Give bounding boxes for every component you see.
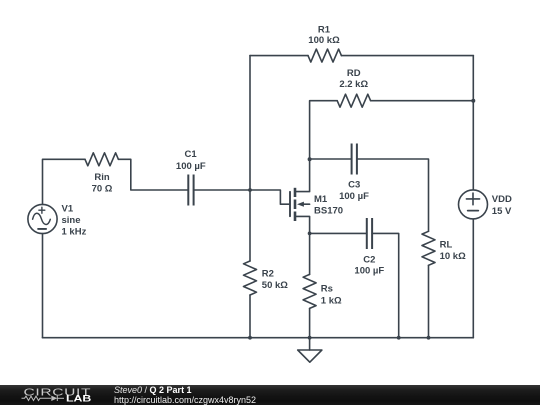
wire C1 to gate node bbox=[194, 189, 250, 191]
svg-text:100 µF: 100 µF bbox=[176, 161, 206, 172]
svg-text:R2: R2 bbox=[262, 269, 274, 280]
node R2 bottom bbox=[248, 336, 252, 340]
wire V1 top to Rin bbox=[43, 159, 86, 204]
resistor Rs bbox=[303, 274, 316, 308]
svg-text:100 µF: 100 µF bbox=[354, 266, 384, 277]
svg-text:LAB: LAB bbox=[66, 394, 91, 404]
label RD bbox=[339, 68, 368, 90]
wire RL bottom bbox=[428, 265, 430, 337]
svg-text:sine: sine bbox=[62, 215, 81, 226]
node gate junction bbox=[248, 188, 252, 192]
wire C2 left bbox=[310, 232, 367, 234]
wire R2 bottom bbox=[249, 295, 251, 338]
svg-text:70 Ω: 70 Ω bbox=[92, 183, 113, 194]
label VDD bbox=[492, 194, 512, 217]
wire RD left bbox=[310, 101, 338, 159]
left column wire R1-R2 bbox=[249, 56, 251, 261]
svg-text:Rs: Rs bbox=[321, 283, 333, 294]
svg-text:50 kΩ: 50 kΩ bbox=[262, 280, 288, 291]
label Rs bbox=[321, 283, 342, 306]
svg-text:C1: C1 bbox=[185, 149, 198, 160]
footer text bbox=[114, 385, 256, 405]
wire RD right bbox=[371, 100, 474, 102]
label RL bbox=[440, 240, 466, 262]
resistor RD bbox=[337, 94, 370, 107]
svg-text:VDD: VDD bbox=[492, 194, 512, 205]
svg-text:C3: C3 bbox=[348, 180, 360, 191]
CircuitLab logo bbox=[0, 385, 110, 405]
wire VDD branch bbox=[472, 56, 474, 190]
svg-text:1 kHz: 1 kHz bbox=[62, 227, 87, 238]
node Rs bottom bbox=[308, 336, 312, 340]
wire Rin to C1 bbox=[118, 159, 188, 190]
label C2 bbox=[354, 254, 384, 276]
wire bottom rail bbox=[43, 337, 474, 339]
node source junction bbox=[308, 232, 312, 236]
svg-text:100 kΩ: 100 kΩ bbox=[308, 35, 340, 46]
svg-text:M1: M1 bbox=[314, 194, 328, 205]
svg-text:15 V: 15 V bbox=[492, 206, 512, 217]
capacitor C1 bbox=[188, 175, 193, 206]
svg-text:100 µF: 100 µF bbox=[339, 191, 369, 202]
svg-text:RD: RD bbox=[347, 68, 361, 79]
svg-text:Rin: Rin bbox=[94, 172, 110, 183]
wire VDD bottom bbox=[472, 219, 474, 337]
label Rin bbox=[92, 172, 113, 194]
wire C3 right to RL bbox=[357, 159, 429, 231]
wire C3 left bbox=[310, 158, 352, 160]
label C1 bbox=[176, 149, 206, 172]
svg-text:2.2 kΩ: 2.2 kΩ bbox=[339, 79, 368, 90]
svg-text:BS170: BS170 bbox=[314, 206, 343, 217]
resistor R2 bbox=[244, 261, 257, 295]
svg-text:1 kΩ: 1 kΩ bbox=[321, 295, 342, 306]
node drain junction bbox=[308, 157, 312, 161]
wire R1 right bbox=[341, 55, 473, 57]
wire Rs bottom bbox=[309, 308, 311, 337]
transistor M1 bbox=[290, 159, 310, 233]
svg-text:RL: RL bbox=[440, 240, 453, 251]
capacitor C2 bbox=[367, 218, 372, 249]
node RL bottom bbox=[427, 336, 431, 340]
resistor R1 bbox=[308, 49, 341, 62]
label V1 bbox=[62, 203, 87, 237]
svg-text:10 kΩ: 10 kΩ bbox=[440, 251, 466, 262]
svg-text:V1: V1 bbox=[62, 203, 74, 214]
svg-text:C2: C2 bbox=[363, 254, 375, 265]
wire Rs top bbox=[309, 233, 311, 274]
wire R1 left bbox=[250, 55, 308, 57]
label R2 bbox=[262, 269, 288, 292]
node C2 bottom bbox=[397, 336, 401, 340]
voltage source V1 bbox=[28, 204, 57, 233]
node RD-VDD junction bbox=[471, 99, 475, 103]
wire V1 bottom bbox=[42, 234, 44, 338]
ground bbox=[298, 338, 322, 363]
wire C2 right down bbox=[372, 233, 399, 337]
footer bar bbox=[0, 385, 540, 405]
capacitor C3 bbox=[352, 144, 357, 175]
label C3 bbox=[339, 180, 369, 202]
svg-text:R1: R1 bbox=[318, 25, 331, 36]
wire gate node to M1 gate bbox=[250, 190, 289, 204]
resistor Rin bbox=[85, 153, 118, 166]
source VDD bbox=[459, 190, 488, 219]
resistor RL bbox=[422, 231, 435, 265]
label M1 bbox=[314, 194, 343, 216]
label R1 bbox=[308, 25, 340, 47]
